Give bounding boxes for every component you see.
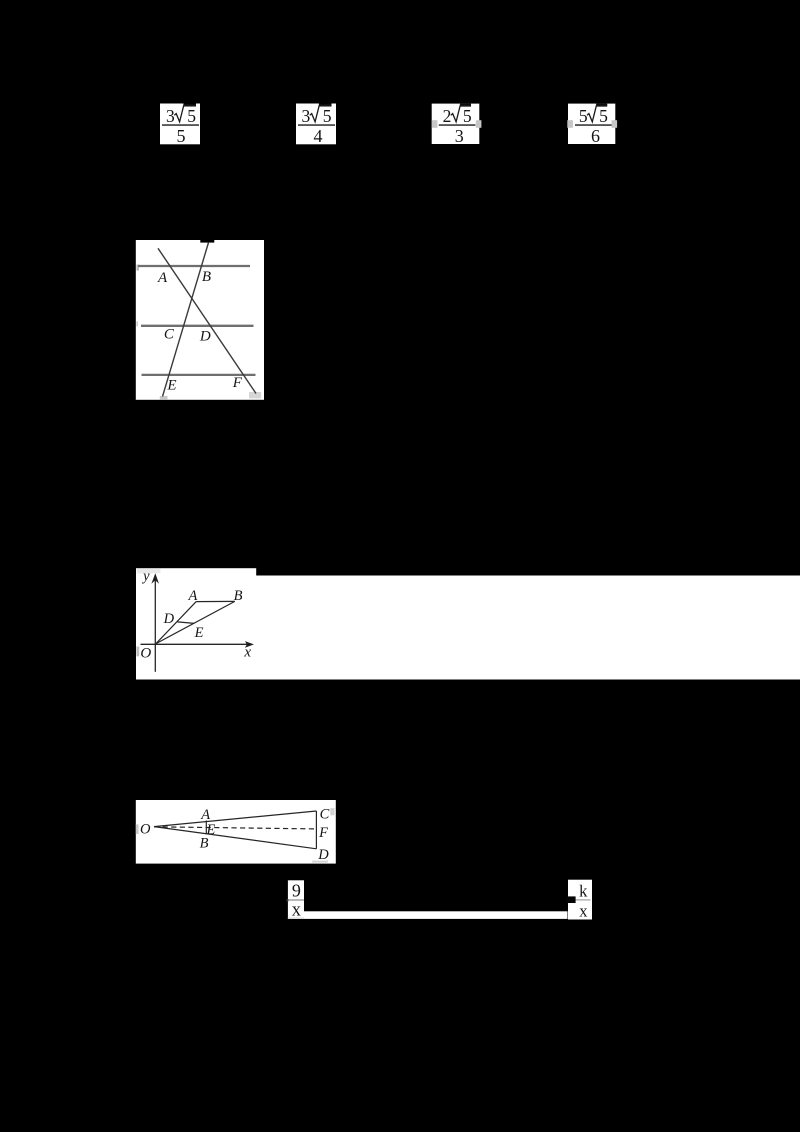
fraction box 2root5/3 (432, 104, 482, 146)
svg-text:A: A (200, 807, 210, 823)
ray OD (154, 827, 316, 849)
fraction box 5root5/6 (567, 104, 617, 146)
svg-text:O: O (140, 645, 151, 661)
fraction box 3root5/5 (160, 104, 200, 146)
fraction box 3root5/4 (296, 104, 336, 146)
svg-text:5: 5 (323, 106, 332, 126)
svg-text:D: D (163, 611, 175, 627)
sqrt notch box4 (596, 104, 607, 107)
x axis arrowhead (245, 641, 254, 648)
fraction bar 9/x (288, 899, 304, 900)
y axis (154, 579, 156, 672)
x axis (141, 643, 248, 645)
figure1 handle bottom right (249, 392, 261, 398)
figure1 top notch (200, 240, 214, 243)
figure3 handle left (136, 824, 139, 834)
fraction bar box4 (575, 124, 612, 126)
svg-text:k: k (579, 882, 588, 901)
svg-text:3: 3 (455, 126, 464, 146)
left handle box3 (432, 120, 438, 128)
svg-text:6: 6 (591, 126, 600, 146)
figure2 gray strip top left (137, 569, 161, 574)
svg-text:y: y (141, 569, 150, 585)
right handle box4 (612, 120, 618, 128)
transversal ADF (158, 248, 256, 393)
svg-text:D: D (199, 328, 211, 344)
svg-text:3: 3 (302, 106, 311, 126)
figure1 handle left of line l2 (136, 321, 138, 326)
svg-text:E: E (194, 625, 204, 641)
segment OB (156, 601, 235, 643)
figure1 parallel lines white box (136, 240, 264, 400)
sqrt notch box2 (319, 104, 332, 107)
y axis arrowhead (151, 573, 159, 584)
svg-text:5: 5 (187, 106, 196, 126)
svg-text:D: D (317, 847, 329, 863)
ray OC (154, 811, 316, 827)
svg-text:B: B (234, 588, 243, 604)
right handle box3 (476, 120, 482, 128)
radical glyph box2 (310, 105, 332, 122)
svg-text:B: B (202, 269, 211, 285)
figure2 white band (136, 576, 800, 680)
bar tick left 9/x (286, 899, 288, 901)
parallel line l1 (138, 265, 250, 267)
svg-text:5: 5 (463, 106, 472, 126)
svg-text:E: E (166, 378, 176, 394)
fraction bar box2 (298, 124, 335, 126)
radical glyph box3 (451, 105, 471, 122)
figure2 handle left (136, 647, 139, 657)
left handle box4 (567, 120, 573, 128)
fraction k/x box (566, 880, 592, 921)
white underline strip (304, 911, 568, 919)
parallel line l3 (142, 374, 256, 376)
figure1 handle left of line l1 (136, 265, 139, 271)
bottom gray strip 9/x (288, 917, 304, 919)
svg-text:C: C (164, 327, 175, 343)
segment CD (315, 811, 317, 849)
svg-text:9: 9 (292, 880, 301, 900)
fraction bar k/x (575, 899, 591, 900)
svg-text:x: x (579, 902, 588, 921)
radical glyph box1 (174, 105, 196, 122)
sqrt notch box1 (184, 104, 197, 107)
figure3 handle near C (330, 808, 334, 815)
figure2 coordinate figure white box (136, 568, 256, 679)
svg-text:5: 5 (177, 126, 186, 146)
segment DE (177, 622, 194, 624)
transversal BCE (163, 243, 209, 397)
svg-text:A: A (157, 270, 168, 286)
fraction 9/x box (286, 880, 304, 920)
svg-text:F: F (232, 375, 243, 391)
svg-text:C: C (320, 807, 330, 823)
dashed line OF (154, 827, 315, 829)
svg-text:O: O (140, 822, 151, 838)
sqrt notch box3 (460, 104, 471, 107)
parallel line l2 (141, 325, 254, 327)
fraction bar box3 (439, 124, 476, 126)
black handle left k/x (566, 896, 575, 903)
svg-text:x: x (243, 644, 251, 660)
figure3 white box (136, 800, 336, 864)
svg-text:5: 5 (579, 106, 588, 126)
figure3 underline below D (312, 861, 328, 863)
svg-text:3: 3 (166, 106, 175, 126)
figure1 handle bottom left (160, 396, 168, 400)
svg-text:B: B (200, 836, 209, 852)
svg-text:4: 4 (314, 126, 323, 146)
svg-text:F: F (318, 825, 328, 841)
segment AB fig3 (205, 821, 207, 835)
radical glyph box4 (587, 105, 607, 122)
svg-text:A: A (187, 588, 197, 604)
svg-text:2: 2 (443, 106, 452, 126)
segment AB (196, 600, 235, 602)
fraction bar box1 (162, 124, 199, 126)
segment OA (156, 602, 196, 644)
svg-text:5: 5 (599, 106, 608, 126)
